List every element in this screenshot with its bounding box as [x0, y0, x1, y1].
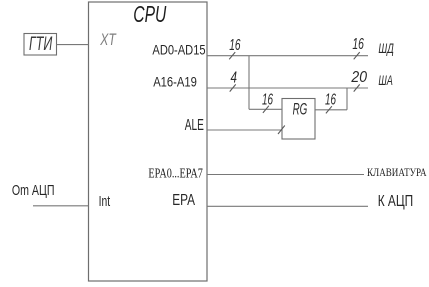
svg-text:К АЦП: К АЦП — [378, 193, 414, 210]
svg-text:16: 16 — [262, 91, 273, 108]
svg-text:20: 20 — [351, 69, 368, 86]
svg-text:EPA0...EPA7: EPA0...EPA7 — [148, 167, 203, 182]
svg-text:XT: XT — [100, 30, 117, 49]
svg-text:RG: RG — [293, 101, 308, 119]
svg-text:ГТИ: ГТИ — [29, 34, 53, 55]
svg-text:4: 4 — [231, 70, 238, 87]
svg-text:EPA: EPA — [172, 192, 195, 209]
svg-text:16: 16 — [352, 36, 364, 53]
svg-text:КЛАВИАТУРА: КЛАВИАТУРА — [367, 167, 427, 179]
svg-text:Int: Int — [99, 193, 111, 210]
svg-text:ША: ША — [378, 72, 393, 88]
svg-text:AD0-AD15: AD0-AD15 — [152, 43, 205, 58]
svg-text:ШД: ШД — [378, 40, 394, 56]
svg-text:CPU: CPU — [133, 1, 166, 27]
svg-text:ALE: ALE — [185, 117, 204, 134]
svg-text:A16-A19: A16-A19 — [153, 74, 197, 90]
svg-text:16: 16 — [325, 91, 336, 108]
svg-text:Om АЦП: Om АЦП — [12, 182, 55, 199]
svg-text:16: 16 — [229, 37, 240, 54]
